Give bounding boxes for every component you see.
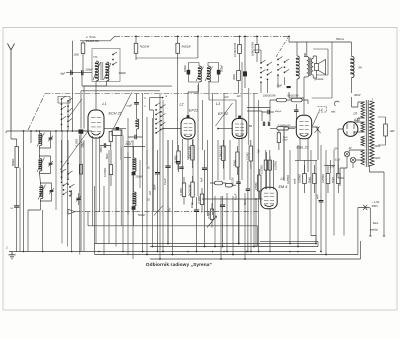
wire: v25 [241,62,243,180]
ground bus [9,251,316,253]
label L3 [216,102,220,106]
label Rm8 [254,182,258,190]
label 50mA [336,37,344,41]
label R1 [86,39,100,43]
wire: bus D [95,241,361,259]
tube L5 EM4 [261,187,277,209]
wire: v23 [235,100,237,118]
wire: screen drop x332 [312,42,332,98]
resistor Rm6 [191,176,194,205]
junction top [244,36,246,38]
wire: lv7 [103,186,105,255]
junction g14 [289,251,291,253]
label mains V [372,200,380,208]
coil field [296,42,299,98]
transformer Tr mains sec fil2 [361,136,365,146]
label Rm9 [207,211,211,219]
switch dots K1 [112,52,117,65]
junction g1 [23,251,25,253]
label EM4 [279,185,288,189]
svg-text:4V: 4V [349,147,352,150]
wire: osc bus 225 [88,212,160,226]
coil L ant3 [38,183,54,202]
wire: S3 links [254,50,285,93]
svg-text:L4: L4 [319,108,323,112]
junction [162,251,164,253]
label mmF [127,104,133,108]
wire: rv10 [333,150,335,236]
svg-text:EF22: EF22 [189,109,199,113]
label Rr1 [297,174,301,183]
capacitor C det blob [287,86,291,88]
wire: choke down [352,97,358,107]
label 5M [249,125,252,128]
resistor R em1 [264,150,267,189]
label R3 [181,45,191,49]
wire: v5 [162,100,164,252]
junction c [320,251,322,253]
svg-text:0,1MΩ/0,5W: 0,1MΩ/0,5W [218,145,222,160]
wire: left verticals [56,131,68,247]
label Rm10 [197,196,201,204]
capacitor C osc [128,135,143,139]
wire: v22 [232,196,234,255]
coil K2a [196,66,204,82]
wire: r row top1 [295,160,317,162]
resistor Rp1 pill [210,181,226,185]
wire: rv7 [320,145,322,193]
wire: hook jump [334,101,339,106]
resistor R3 7k/1W [176,36,180,64]
wire: antenna row [7,130,89,132]
capacitor C K2a [187,63,199,83]
junction c [167,243,169,245]
wire: lv5 [83,140,85,252]
wire: v30 [258,100,260,252]
label 120V [375,157,381,160]
label Cm2a [164,178,167,185]
coil L osc2 [133,192,136,206]
label 6pF [61,71,66,75]
transformer Tr mains sec HT [361,102,365,118]
wire: v11 [192,139,194,183]
wire: EM4 bottom [202,198,270,251]
wire: v29 [253,93,255,247]
switch field S2 [155,102,165,133]
svg-text:6pF: 6pF [61,71,66,75]
junction [244,258,246,260]
junction [232,254,234,256]
junction g4 [98,251,100,253]
svg-text:2nF: 2nF [149,190,152,196]
resistor Rr2 [313,165,317,193]
svg-text:50kΩ: 50kΩ [331,177,335,183]
resistor R gleak [79,165,82,175]
wire: v4 [159,93,161,259]
label L5 [281,177,285,181]
svg-text:7kΩ/1W: 7kΩ/1W [140,45,150,49]
wire: lv4 [79,135,81,255]
svg-text:L2: L2 [180,103,184,107]
capacitor C top L3 [238,116,241,118]
svg-text:500pF: 500pF [126,142,133,144]
junction [325,254,327,256]
capacitor C grid L1 [104,127,126,160]
label R det3 [278,125,292,127]
capacitor C top L2 [187,115,190,117]
label Rr extra1 [286,175,290,184]
wire: r row top2 [324,164,335,166]
wire: v10 [187,139,189,160]
label 3a [147,167,150,170]
svg-text:50mA: 50mA [336,37,344,41]
junction g15 [297,251,299,253]
resistor Rm9 [210,203,213,228]
label 500k [12,159,15,166]
svg-text:100pF: 100pF [221,64,224,72]
wire: HT to AZ1 [358,102,365,122]
capacitor C det1 [262,110,274,114]
wire: lv11 [127,118,129,255]
resistor R det3 [270,127,295,130]
potentiometer arrow [207,216,217,228]
label 100pF K2a [184,64,187,72]
wire: v28 [250,161,252,252]
wire: lv12 [132,140,134,259]
wire: gang row 1 [84,86,172,129]
junction [214,246,216,248]
wire: rv2 [289,150,291,244]
wire: S3 gang link [276,38,288,58]
svg-text:120V: 120V [375,157,381,160]
wire: tube drop 2 [95,138,97,244]
junction c [238,243,240,245]
svg-text:0,25MΩ: 0,25MΩ [260,165,263,174]
ground [9,252,16,259]
label Rm1 [187,146,191,159]
label R2 [140,45,150,49]
wire: v26 [244,193,246,259]
label 100pF [85,67,93,71]
wire: v16 [214,196,216,247]
svg-text:30kΩ: 30kΩ [233,74,236,80]
junction [172,254,174,256]
wire: v6 [167,140,169,244]
wire: lv3 [71,190,73,252]
svg-text:12V: 12V [224,96,229,99]
label Rr4 [331,177,335,183]
tube L2 EF22 [181,118,195,139]
junction [258,251,260,253]
label 100k/0,5W [263,96,277,98]
label Rp rot [232,177,235,186]
svg-text:AZ1: AZ1 [353,118,360,122]
wire: K2 to L3 [209,99,236,101]
svg-text:5kΩ/0,5W: 5kΩ/0,5W [187,184,191,196]
resistor R det1 [276,98,286,102]
svg-text:50kΩ: 50kΩ [307,177,311,183]
tube L3 EF22 [232,119,247,139]
svg-text:Sieć: Sieć [373,221,379,225]
wire: gang diag 2 [154,206,163,216]
label Rm5 [173,155,177,163]
capacitor C K2b [208,63,220,83]
junction [238,243,240,245]
svg-text:~ 1,5A: ~ 1,5A [372,200,380,204]
wire: B+ feed left [80,36,115,40]
wire: tube drop 1 [92,136,94,226]
junction g5 [122,251,124,253]
svg-text:EBL 21: EBL 21 [297,146,309,150]
label R cath L1 [100,146,103,153]
wire: K2 down [188,83,209,118]
transformer Tr mains primary [370,101,374,166]
variable capacitor CV1 [75,129,88,251]
svg-text:100pF: 100pF [119,71,127,75]
wire: bus A [95,236,317,244]
wire: screen link 58 [136,57,198,59]
wire: tube drop 3 [99,136,101,212]
label Rm3 [232,160,236,166]
wire: gang dash-dot [45,93,258,95]
label glosnik [315,78,324,81]
wire: L4 pointer [313,113,319,127]
label 300V [354,93,362,97]
node 3 [372,98,374,102]
label 12V [334,148,339,151]
svg-text:0,1MΩ: 0,1MΩ [76,139,79,147]
wire: gang dash-dot 2 [75,211,258,213]
label EBL21 [297,146,309,150]
svg-text:L6: L6 [354,112,358,116]
label C osc [126,142,133,144]
resistor Rm8 [258,169,261,199]
wire: v13 [202,100,204,150]
resistor R em2 [268,150,271,189]
wire: sw pointer [68,99,82,118]
wire: gang row 2 [81,91,160,129]
wire: fil to AZ1 [347,122,365,135]
wire: lamps [340,150,365,186]
capacitor C det3 [268,122,269,126]
label 220V [374,145,381,148]
svg-text:EM 4: EM 4 [279,185,288,189]
capacitor Cm2 [165,140,170,244]
svg-text:0,1MΩ: 0,1MΩ [197,196,201,204]
junction c [204,246,206,248]
wire: mains drop [357,208,359,255]
label 50k/0,5W [287,96,299,98]
node 1 [5,130,7,134]
resistor R HT [384,117,388,145]
label L2 [180,103,184,107]
label Rr3 [321,174,325,183]
svg-text:ECH 21: ECH 21 [109,112,122,116]
svg-text:Odbiornik radiowy „Syrena”: Odbiornik radiowy „Syrena” [146,262,213,268]
wire: lv9 [115,136,117,247]
junction c [247,251,249,253]
resistor Rr4 [337,165,341,193]
label Rm2 [218,145,222,160]
junction g7 [162,251,164,253]
resistor Rm5 [177,145,180,172]
label L6 [354,112,358,116]
label 400pF [275,110,282,113]
label Cm1a [153,184,156,190]
trimmer CT osc [76,193,81,205]
resistor Rm7 [182,177,185,205]
label 4nF [316,194,320,199]
wire: v8 [177,64,179,151]
capacitor C2 100pF [82,70,83,75]
resistor R7 [237,71,241,94]
svg-text:zasil.: zasil. [293,178,297,185]
svg-text:0,25MΩ: 0,25MΩ [321,174,325,183]
capacitor C1 6pF [71,70,72,75]
label R4 [234,42,237,57]
wire: v18 [220,196,222,259]
capacitor C agc blob [243,36,247,88]
label R grid L1b [81,141,84,147]
label C cath L1 [106,153,109,159]
wire: sw verticals [62,99,69,180]
wire: vert 72.5 [72,41,74,131]
speaker Gl [315,60,326,75]
resistor Rr3 [326,165,330,193]
label Rm7 [179,188,183,196]
svg-text:30μF: 30μF [277,84,283,87]
label Cm9 [190,202,194,208]
label 8H [359,66,362,70]
junction g12 [258,251,260,253]
transformer Tr mains sec fil1 [361,122,365,132]
svg-text:50kΩ: 50kΩ [232,160,236,166]
label 30uF [277,84,283,87]
resistor R det2 [291,98,302,102]
core K1 [101,62,103,80]
wire: L2 grid [162,128,181,130]
coil L fb [136,119,139,137]
svg-text:0,1MΩ: 0,1MΩ [246,152,250,160]
svg-text:0,25MΩ: 0,25MΩ [275,161,278,170]
wire: lv1 [19,168,21,252]
svg-text:0,1MΩ: 0,1MΩ [179,188,183,196]
junction top [177,36,179,38]
label 6,3V [335,159,340,162]
svg-text:100kΩ/0,5W: 100kΩ/0,5W [263,96,277,98]
capacitor C g L4 [294,104,298,119]
svg-text:L1: L1 [103,102,107,106]
resistor R det4 [277,130,280,150]
wire: lv8 [108,150,110,244]
label sw b [144,96,146,100]
switch S mains [358,205,370,212]
capacitor Cm5 [202,150,207,247]
coil L ant2 [37,156,53,175]
junction [297,246,299,248]
svg-text:10nF: 10nF [190,202,194,208]
transformer Tr mains core [366,100,368,167]
wire: v15 [212,93,214,215]
label AZ1 [353,118,360,122]
label R det4 [283,137,289,142]
tube L6 AZ1 [343,122,358,137]
label 1.5mA [86,35,96,39]
svg-text:0,25MΩ: 0,25MΩ [286,175,290,184]
wire: L4 sides [284,127,318,180]
label R7 [233,74,236,80]
wire: Tr out top [304,42,313,78]
svg-text:7kΩ/1W: 7kΩ/1W [181,45,191,49]
wire: v7 [172,140,174,255]
label 50pF osc [70,190,73,196]
svg-text:GŁOŚN.: GŁOŚN. [232,177,235,186]
junction g2 [42,251,44,253]
switch tone [314,127,320,133]
wire: top dash-dot bus [115,35,290,37]
junction top [239,36,241,38]
capacitor Cm3 [176,162,180,171]
resistor R4 [238,36,242,70]
svg-text:250pF: 250pF [135,176,144,179]
wire: v17 [217,140,219,180]
label Tr out [304,53,307,56]
svg-text:500kΩ: 500kΩ [12,159,15,166]
capacitor C det2 [263,122,264,126]
svg-text:0,15MΩ: 0,15MΩ [104,168,107,177]
junction g3 [71,251,73,253]
label 50pF ant [11,208,14,210]
junction top [135,36,137,38]
node 2 [6,246,8,250]
wire: coupling row [66,72,92,74]
core slug 2 [132,206,136,226]
label sw c [144,105,146,108]
wire: rv3 [297,145,299,247]
wire: v12 [197,85,199,196]
svg-text:300V: 300V [354,93,362,97]
switch field S1b [61,169,73,185]
tube L1 ECH21 [88,110,104,138]
resistor Rm1 [191,140,194,169]
junction [220,258,222,260]
capacitor Cm6 [220,196,225,247]
wire: v19 [223,93,225,180]
wire: osc routing [121,118,153,226]
wire: rv8 [325,150,327,255]
junction top [288,36,290,38]
lamp Z1 [344,151,349,156]
wire: speaker frame [313,49,328,75]
capacitor Cm8 [246,161,250,252]
wire: bus B [150,241,318,246]
junction [146,254,148,256]
wire: K1 bottom [82,73,107,110]
junction top [197,36,199,38]
wire: v27 [248,88,250,145]
capacitor Cm9 [194,197,199,252]
wire: mains 2 [369,212,372,236]
label 100pF K2b [221,64,224,72]
label Rr2 [307,177,311,183]
resistor Rm3 [236,146,239,175]
transformer Tr out [307,57,313,78]
junction [152,246,154,248]
wire: AZ1 out [338,129,344,178]
label 12V b [224,96,229,99]
junction [159,258,161,260]
junction g8 [187,251,189,253]
